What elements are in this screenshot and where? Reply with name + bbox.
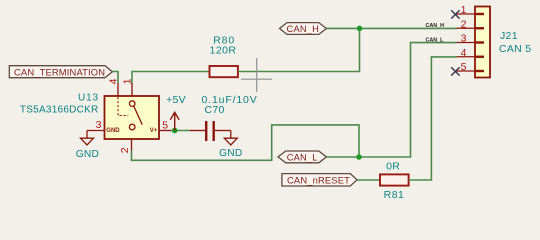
U13 pin 4 bbox=[117, 83, 119, 96]
U13 pin 3 bbox=[87, 130, 105, 132]
svg-text:U13: U13 bbox=[78, 92, 99, 103]
U13 switch contacts bbox=[129, 101, 142, 130]
cursor crosshair bbox=[241, 58, 272, 92]
svg-text:GND: GND bbox=[76, 149, 99, 160]
U13 pin 5 bbox=[159, 130, 171, 132]
wire U13 pin2 to CAN_L junction (Z path) bbox=[132, 125, 360, 160]
svg-text:C70: C70 bbox=[205, 104, 225, 116]
J21 pin 2 bbox=[457, 18, 485, 30]
global label CAN_L bbox=[278, 151, 326, 163]
svg-text:3: 3 bbox=[96, 119, 102, 131]
svg-text:1: 1 bbox=[461, 4, 467, 16]
ground symbol at U13 pin 3 bbox=[81, 131, 94, 145]
resistor R80 bbox=[210, 35, 238, 78]
J21 pin 1 bbox=[457, 4, 485, 16]
svg-text:V+: V+ bbox=[150, 128, 158, 134]
svg-text:2: 2 bbox=[119, 147, 131, 153]
no-connect X pin 1 bbox=[451, 10, 459, 18]
svg-text:CAN_H: CAN_H bbox=[287, 24, 320, 34]
wire U13 pin1 to R80 left bbox=[132, 72, 210, 84]
svg-text:4: 4 bbox=[107, 78, 119, 84]
capacitor C70 bbox=[190, 94, 258, 141]
svg-text:1: 1 bbox=[121, 78, 133, 84]
J21 pin 4 bbox=[457, 47, 485, 59]
svg-text:0R: 0R bbox=[386, 161, 400, 173]
power symbol +5V bbox=[170, 112, 179, 130]
U13 pin 1 bbox=[131, 83, 133, 96]
junction at +5V bbox=[172, 128, 178, 134]
svg-text:5: 5 bbox=[461, 61, 467, 73]
svg-text:4: 4 bbox=[461, 47, 467, 59]
ground symbol at C70 bbox=[224, 131, 237, 145]
connector J21 body bbox=[475, 7, 531, 78]
analog switch U13 body bbox=[20, 92, 159, 139]
svg-text:R81: R81 bbox=[384, 189, 405, 201]
svg-text:CAN_nRESET: CAN_nRESET bbox=[287, 174, 350, 185]
U13 control dashed line bbox=[118, 97, 128, 116]
wire CAN_H label to J21 pin 2 bbox=[326, 27, 456, 29]
wire CAN_L label to vertical riser bbox=[326, 43, 456, 157]
hierarchical label CAN_TERMINATION bbox=[9, 66, 112, 78]
global label CAN_H bbox=[280, 23, 327, 35]
svg-text:+5V: +5V bbox=[166, 94, 186, 106]
svg-text:CAN_L: CAN_L bbox=[287, 152, 318, 162]
svg-text:3: 3 bbox=[461, 33, 467, 45]
J21 pin 3 bbox=[457, 33, 485, 45]
wire U13 pin5 to C70 bbox=[171, 130, 190, 132]
svg-text:CAN_H: CAN_H bbox=[426, 23, 445, 29]
no-connect X pin 5 bbox=[451, 67, 459, 75]
wire CAN_nRESET to R81 bbox=[357, 179, 380, 181]
svg-text:5: 5 bbox=[162, 119, 168, 131]
resistor R81 bbox=[380, 161, 409, 201]
svg-text:GND: GND bbox=[106, 128, 120, 134]
wire R80 right to CAN_H junction bbox=[238, 28, 360, 71]
junction on CAN_H bbox=[357, 26, 363, 32]
U13 pin 2 bbox=[131, 139, 133, 150]
J21 pin 5 bbox=[457, 61, 485, 73]
junction on CAN_L bbox=[356, 154, 362, 160]
svg-text:CAN 5: CAN 5 bbox=[499, 43, 531, 55]
wire R81 to J21 pin 4 bbox=[409, 57, 457, 180]
svg-text:120R: 120R bbox=[210, 44, 237, 56]
svg-text:TS5A3166DCKR: TS5A3166DCKR bbox=[20, 104, 99, 115]
svg-text:GND: GND bbox=[219, 148, 242, 159]
hierarchical label CAN_nRESET bbox=[282, 174, 357, 186]
svg-text:2: 2 bbox=[461, 18, 467, 30]
svg-text:CAN_L: CAN_L bbox=[426, 38, 445, 44]
wire from CAN_TERMINATION to U13 pin 4 bbox=[112, 72, 118, 84]
svg-text:J21: J21 bbox=[500, 30, 518, 42]
svg-text:CAN_TERMINATION: CAN_TERMINATION bbox=[14, 66, 105, 77]
